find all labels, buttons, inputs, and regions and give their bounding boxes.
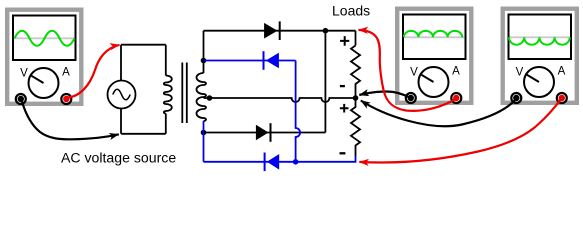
node: secondary bottom dot: [201, 130, 207, 136]
wire: center tap line with hops: [204, 98, 356, 102]
M1 screen sine waveform: [15, 31, 75, 46]
node: center tap dot: [207, 95, 213, 101]
wire: source loop left vertical (with gap for source): [120, 45, 122, 134]
probe wire: M2 red to top rail: [359, 30, 457, 111]
resistor R2 (bottom load): [351, 98, 360, 156]
diode D4 (blue): [265, 153, 280, 172]
transformer T1 secondary coil: [197, 61, 206, 122]
wire: secondary top to rail: [203, 31, 205, 61]
probe wire: M2 black to common node: [359, 92, 411, 98]
diode D1: [264, 21, 280, 40]
wire: blue top diode line: [204, 60, 296, 62]
AC source V1 circle: [108, 81, 136, 109]
node: common junction dot: [353, 95, 359, 101]
label: + (R1 top): [340, 36, 349, 46]
wire: black vertical from top rail to bottom diode line: [324, 31, 326, 133]
diode D2 (blue): [264, 51, 279, 70]
probe wire: M1 red to source loop top: [67, 45, 120, 98]
wire: bottom diode line: [204, 132, 326, 134]
wire: blue vertical with hop over bottom diode line: [296, 61, 301, 162]
wire: rail corner down to R1: [355, 31, 357, 46]
wire: blue bottom rail: [204, 156, 356, 162]
probe wire: M3 red to blue rail end: [359, 98, 561, 162]
wire: positive top rail: [204, 30, 356, 32]
wire: source loop bottom: [121, 133, 166, 135]
resistor R1 (top load): [351, 46, 360, 99]
M2 screen full-wave positive humps: [404, 31, 462, 37]
diode D3: [256, 123, 271, 142]
node: blue junction dot: [293, 159, 299, 165]
svg-text:Loads: Loads: [332, 3, 370, 19]
transformer T1 core: [182, 63, 187, 124]
multimeter M2 (positive output meter): [397, 9, 471, 103]
svg-text:AC voltage source: AC voltage source: [61, 149, 176, 165]
label: + (R2 top): [340, 104, 349, 113]
probe wire: M1 black to source loop bottom: [21, 98, 119, 139]
multimeter M1 (AC source meter): [7, 10, 81, 104]
probe wire: M3 black to common node: [361, 99, 517, 126]
node: secondary top dot: [201, 58, 207, 64]
M3 screen full-wave negative humps: [509, 37, 570, 44]
multimeter M3 (negative output meter): [503, 9, 577, 103]
transformer T1 primary coil: [164, 45, 172, 134]
AC source sine symbol: [113, 89, 130, 100]
wire: blue drop from secondary bottom: [203, 121, 205, 162]
label: - (R2 bottom): [340, 152, 346, 154]
node: junction on top rail: [323, 28, 329, 34]
wire: source loop top: [121, 44, 166, 46]
label: - (R1 bottom): [340, 85, 345, 87]
